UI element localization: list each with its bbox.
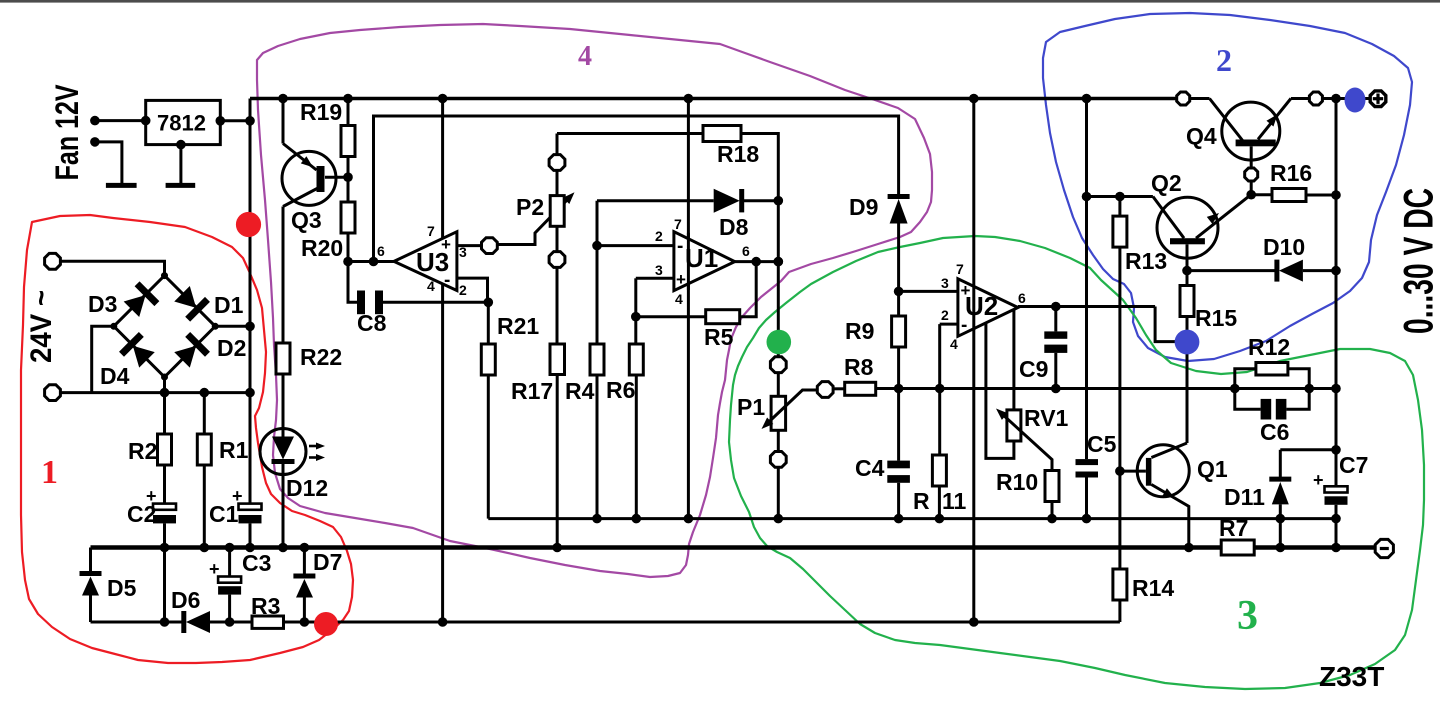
svg-text:6: 6 bbox=[742, 243, 750, 259]
svg-text:6: 6 bbox=[377, 243, 385, 259]
svg-text:2: 2 bbox=[941, 307, 949, 323]
svg-text:R19: R19 bbox=[300, 99, 342, 125]
svg-text:7812: 7812 bbox=[157, 111, 206, 136]
svg-text:D2: D2 bbox=[217, 335, 246, 361]
svg-text:D1: D1 bbox=[214, 292, 244, 318]
svg-text:C6: C6 bbox=[1260, 419, 1289, 445]
svg-text:C5: C5 bbox=[1087, 431, 1117, 457]
svg-text:D8: D8 bbox=[719, 214, 749, 240]
svg-text:R2: R2 bbox=[128, 438, 157, 464]
svg-text:C3: C3 bbox=[242, 550, 271, 576]
svg-text:D5: D5 bbox=[107, 575, 137, 601]
svg-text:+: + bbox=[232, 486, 243, 506]
svg-text:R15: R15 bbox=[1195, 305, 1237, 331]
svg-text:-: - bbox=[444, 270, 450, 291]
svg-text:R9: R9 bbox=[845, 318, 874, 344]
svg-text:D7: D7 bbox=[313, 549, 342, 575]
svg-text:4: 4 bbox=[950, 336, 958, 352]
svg-text:3: 3 bbox=[1237, 593, 1258, 639]
svg-text:2: 2 bbox=[655, 228, 663, 244]
svg-text:R20: R20 bbox=[301, 235, 343, 261]
svg-text:R3: R3 bbox=[251, 593, 280, 619]
svg-text:+: + bbox=[209, 559, 220, 579]
svg-text:R22: R22 bbox=[300, 344, 342, 370]
svg-text:R21: R21 bbox=[497, 313, 539, 339]
svg-text:Q4: Q4 bbox=[1186, 123, 1217, 149]
svg-text:4: 4 bbox=[578, 41, 592, 72]
svg-text:+: + bbox=[441, 235, 451, 254]
svg-text:R8: R8 bbox=[844, 354, 874, 380]
svg-text:-: - bbox=[961, 315, 967, 336]
svg-text:C4: C4 bbox=[855, 455, 885, 481]
svg-text:C9: C9 bbox=[1019, 356, 1048, 382]
svg-text:6: 6 bbox=[1018, 290, 1026, 306]
svg-text:Z33T: Z33T bbox=[1319, 661, 1384, 692]
svg-text:3: 3 bbox=[459, 244, 467, 260]
svg-text:3: 3 bbox=[655, 262, 663, 278]
svg-text:Q3: Q3 bbox=[291, 207, 322, 233]
svg-text:C7: C7 bbox=[1339, 452, 1368, 478]
svg-text:C8: C8 bbox=[357, 310, 387, 336]
svg-text:R14: R14 bbox=[1132, 575, 1174, 601]
svg-text:R12: R12 bbox=[1248, 334, 1290, 360]
svg-text:D10: D10 bbox=[1263, 234, 1305, 260]
svg-text:+: + bbox=[146, 486, 157, 506]
svg-text:7: 7 bbox=[956, 261, 964, 277]
svg-text:R6: R6 bbox=[606, 377, 635, 403]
svg-text:7: 7 bbox=[427, 223, 435, 239]
svg-text:R7: R7 bbox=[1219, 515, 1248, 541]
svg-text:Q2: Q2 bbox=[1151, 170, 1182, 196]
svg-text:+: + bbox=[961, 281, 971, 300]
svg-text:R10: R10 bbox=[996, 469, 1038, 495]
svg-text:3: 3 bbox=[941, 275, 949, 291]
svg-text:0...30 V DC: 0...30 V DC bbox=[1395, 188, 1440, 334]
svg-text:R4: R4 bbox=[565, 378, 595, 404]
svg-text:P2: P2 bbox=[516, 194, 544, 220]
svg-text:4: 4 bbox=[675, 291, 683, 307]
svg-text:1: 1 bbox=[41, 454, 58, 491]
svg-text:RV1: RV1 bbox=[1024, 405, 1069, 431]
svg-text:R1: R1 bbox=[219, 437, 249, 463]
svg-text:D12: D12 bbox=[286, 475, 328, 501]
svg-text:D3: D3 bbox=[88, 291, 117, 317]
svg-text:-: - bbox=[677, 236, 683, 257]
svg-text:D4: D4 bbox=[100, 363, 130, 389]
svg-text:7: 7 bbox=[674, 216, 682, 232]
svg-text:R5: R5 bbox=[704, 324, 734, 350]
svg-text:Fan 12V: Fan 12V bbox=[49, 84, 85, 181]
svg-text:2: 2 bbox=[459, 282, 467, 298]
svg-text:2: 2 bbox=[1216, 42, 1232, 78]
svg-text:R13: R13 bbox=[1125, 248, 1167, 274]
svg-text:D9: D9 bbox=[849, 194, 878, 220]
svg-text:24V ~: 24V ~ bbox=[25, 290, 58, 363]
svg-text:D6: D6 bbox=[171, 587, 200, 613]
svg-text:P1: P1 bbox=[737, 394, 765, 420]
svg-text:+: + bbox=[676, 270, 686, 289]
svg-text:R17: R17 bbox=[511, 378, 553, 404]
svg-text:R16: R16 bbox=[1270, 160, 1312, 186]
svg-text:4: 4 bbox=[427, 278, 435, 294]
svg-text:11: 11 bbox=[942, 488, 967, 514]
svg-text:D11: D11 bbox=[1224, 484, 1265, 510]
svg-text:R18: R18 bbox=[717, 141, 759, 167]
svg-text:R: R bbox=[913, 488, 930, 514]
svg-text:U1: U1 bbox=[685, 243, 718, 273]
svg-text:+: + bbox=[1313, 470, 1324, 490]
svg-text:Q1: Q1 bbox=[1197, 456, 1228, 482]
